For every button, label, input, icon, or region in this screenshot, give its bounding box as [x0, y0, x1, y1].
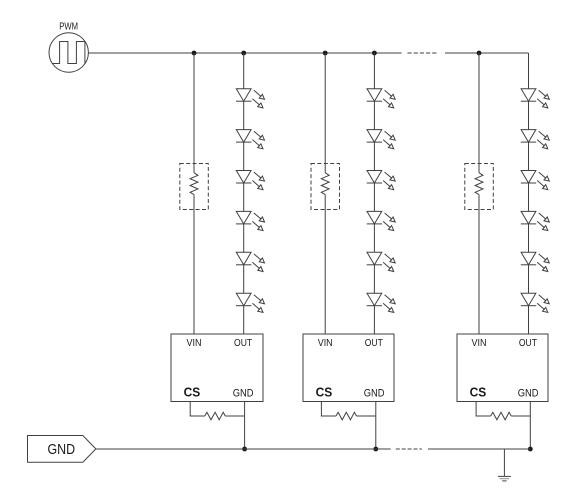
resistor R1a (optional, vertical zigzag)	[190, 173, 198, 195]
wire: CS pin of U3 down and right to sense resistor R3s	[476, 402, 491, 417]
node GND: net label flag	[28, 436, 96, 463]
junction: column 1 GND on bottom bus	[242, 447, 247, 452]
svg-text:GND: GND	[48, 441, 76, 458]
PWM source V1	[49, 33, 88, 72]
wire: LED D33 cathode to LED D34 anode	[528, 183, 530, 211]
LED D33	[521, 171, 550, 190]
wire: LED D32 cathode to LED D33 anode	[528, 142, 530, 170]
LED D23	[367, 171, 396, 190]
LED D13	[236, 171, 265, 190]
wire: LED D14 cathode to LED D15 anode	[243, 224, 245, 252]
resistor R1s (current sense, horizontal zigzag)	[205, 412, 226, 420]
svg-text:CS: CS	[184, 386, 201, 400]
wire: bus to resistor R1a (VIN branch col 1)	[193, 53, 195, 173]
svg-text:GND: GND	[233, 388, 254, 400]
svg-text:GND: GND	[364, 388, 385, 400]
resistor R2a (optional, vertical zigzag)	[321, 173, 329, 195]
wire: LED D21 cathode to LED D22 anode	[373, 101, 375, 129]
wire: bus to resistor R3a (VIN branch col 3)	[478, 53, 480, 173]
wire: resistor R2a to VIN pin of U2	[324, 195, 326, 334]
LED D35	[521, 252, 550, 271]
resistor R2s (current sense, horizontal zigzag)	[336, 412, 357, 420]
svg-text:VIN: VIN	[472, 338, 487, 349]
junction: column 2 LED string tap on top bus	[372, 51, 377, 56]
wire: GND bus solid right segment	[428, 448, 530, 450]
wire: top bus to LED D31 anode	[528, 53, 530, 89]
LED D11	[236, 89, 265, 108]
svg-text:OUT: OUT	[365, 338, 383, 349]
junction: column 1 LED string tap on top bus	[241, 51, 246, 56]
wire: GND bus dashed continuation	[396, 448, 422, 450]
LED D15	[236, 252, 265, 271]
wire: LED D31 cathode to LED D32 anode	[528, 101, 530, 129]
wire: GND pin of U1 to bottom bus	[244, 402, 246, 450]
wire: CS pin of U1 down and right to sense resistor R1s	[190, 402, 205, 417]
wire: LED D22 cathode to LED D23 anode	[373, 142, 375, 170]
op-amp U3: LED driver IC body	[457, 334, 548, 402]
wire: top bus to LED D21 anode	[373, 53, 375, 89]
op-amp U2: LED driver IC body	[303, 334, 394, 402]
LED D32	[521, 130, 550, 149]
wire: CS pin of U2 down and right to sense resistor R2s	[321, 402, 336, 417]
svg-text:PWM: PWM	[59, 21, 78, 32]
wire: LED D35 cathode to LED D36 anode	[528, 265, 530, 293]
wire: LED D24 cathode to LED D25 anode	[373, 224, 375, 252]
wire: top bus dashed continuation	[407, 52, 438, 54]
wire: LED D16 cathode to OUT pin of U1	[243, 306, 245, 334]
junction: column 3 GND on bottom bus	[528, 447, 533, 452]
dashed box around optional resistor R3a	[465, 164, 494, 210]
svg-text:OUT: OUT	[519, 338, 537, 349]
junction: column 2 GND on bottom bus	[373, 447, 378, 452]
wire: LED D23 cathode to LED D24 anode	[373, 183, 375, 211]
LED D16	[236, 293, 265, 312]
LED D21	[367, 89, 396, 108]
wire: sense resistor R2s to GND net of U2	[357, 415, 376, 417]
wire: GND bus solid left segment	[96, 448, 391, 450]
svg-text:VIN: VIN	[187, 338, 202, 349]
wire: LED D25 cathode to LED D26 anode	[373, 265, 375, 293]
wire: sense resistor R1s to GND net of U1	[225, 415, 244, 417]
svg-text:OUT: OUT	[234, 338, 252, 349]
junction: column 3 VIN tap on top bus	[477, 51, 482, 56]
wire: sense resistor R3s to GND net of U3	[511, 415, 530, 417]
LED D24	[367, 211, 396, 230]
wire: LED D12 cathode to LED D13 anode	[243, 142, 245, 170]
wire: GND pin of U2 to bottom bus	[375, 402, 377, 450]
LED D14	[236, 211, 265, 230]
svg-text:VIN: VIN	[318, 338, 333, 349]
junction: column 2 VIN tap on top bus	[323, 51, 328, 56]
resistor R3a (optional, vertical zigzag)	[475, 173, 483, 195]
wire: GND pin of U3 to bottom bus	[529, 402, 531, 450]
ground: earth symbol	[498, 449, 511, 481]
wire: LED D26 cathode to OUT pin of U2	[373, 306, 375, 334]
wire: LED D13 cathode to LED D14 anode	[243, 183, 245, 211]
LED D26	[367, 293, 396, 312]
LED D34	[521, 211, 550, 230]
svg-text:CS: CS	[316, 386, 333, 400]
wire: top bus to LED D11 anode	[243, 53, 245, 89]
wire: resistor R3a to VIN pin of U3	[478, 195, 480, 334]
wire: PWM output to top bus (solid left)	[88, 52, 401, 54]
wire: LED D36 cathode to OUT pin of U3	[528, 306, 530, 334]
svg-text:GND: GND	[518, 388, 539, 400]
LED D31	[521, 89, 550, 108]
LED D36	[521, 293, 550, 312]
wire: top bus solid right segment to corner	[445, 52, 529, 54]
LED D22	[367, 130, 396, 149]
wire: LED D34 cathode to LED D35 anode	[528, 224, 530, 252]
LED D25	[367, 252, 396, 271]
dashed box around optional resistor R1a	[180, 164, 209, 210]
wire: bus to resistor R2a (VIN branch col 2)	[324, 53, 326, 173]
junction: column 1 VIN tap on top bus	[192, 51, 197, 56]
svg-text:CS: CS	[470, 386, 487, 400]
op-amp U1: LED driver IC body	[171, 334, 263, 402]
resistor R3s (current sense, horizontal zigzag)	[491, 412, 512, 420]
LED D12	[236, 130, 265, 149]
wire: LED D11 cathode to LED D12 anode	[243, 101, 245, 129]
wire: LED D15 cathode to LED D16 anode	[243, 265, 245, 293]
dashed box around optional resistor R2a	[311, 164, 340, 210]
wire: resistor R1a to VIN pin of U1	[193, 195, 195, 334]
